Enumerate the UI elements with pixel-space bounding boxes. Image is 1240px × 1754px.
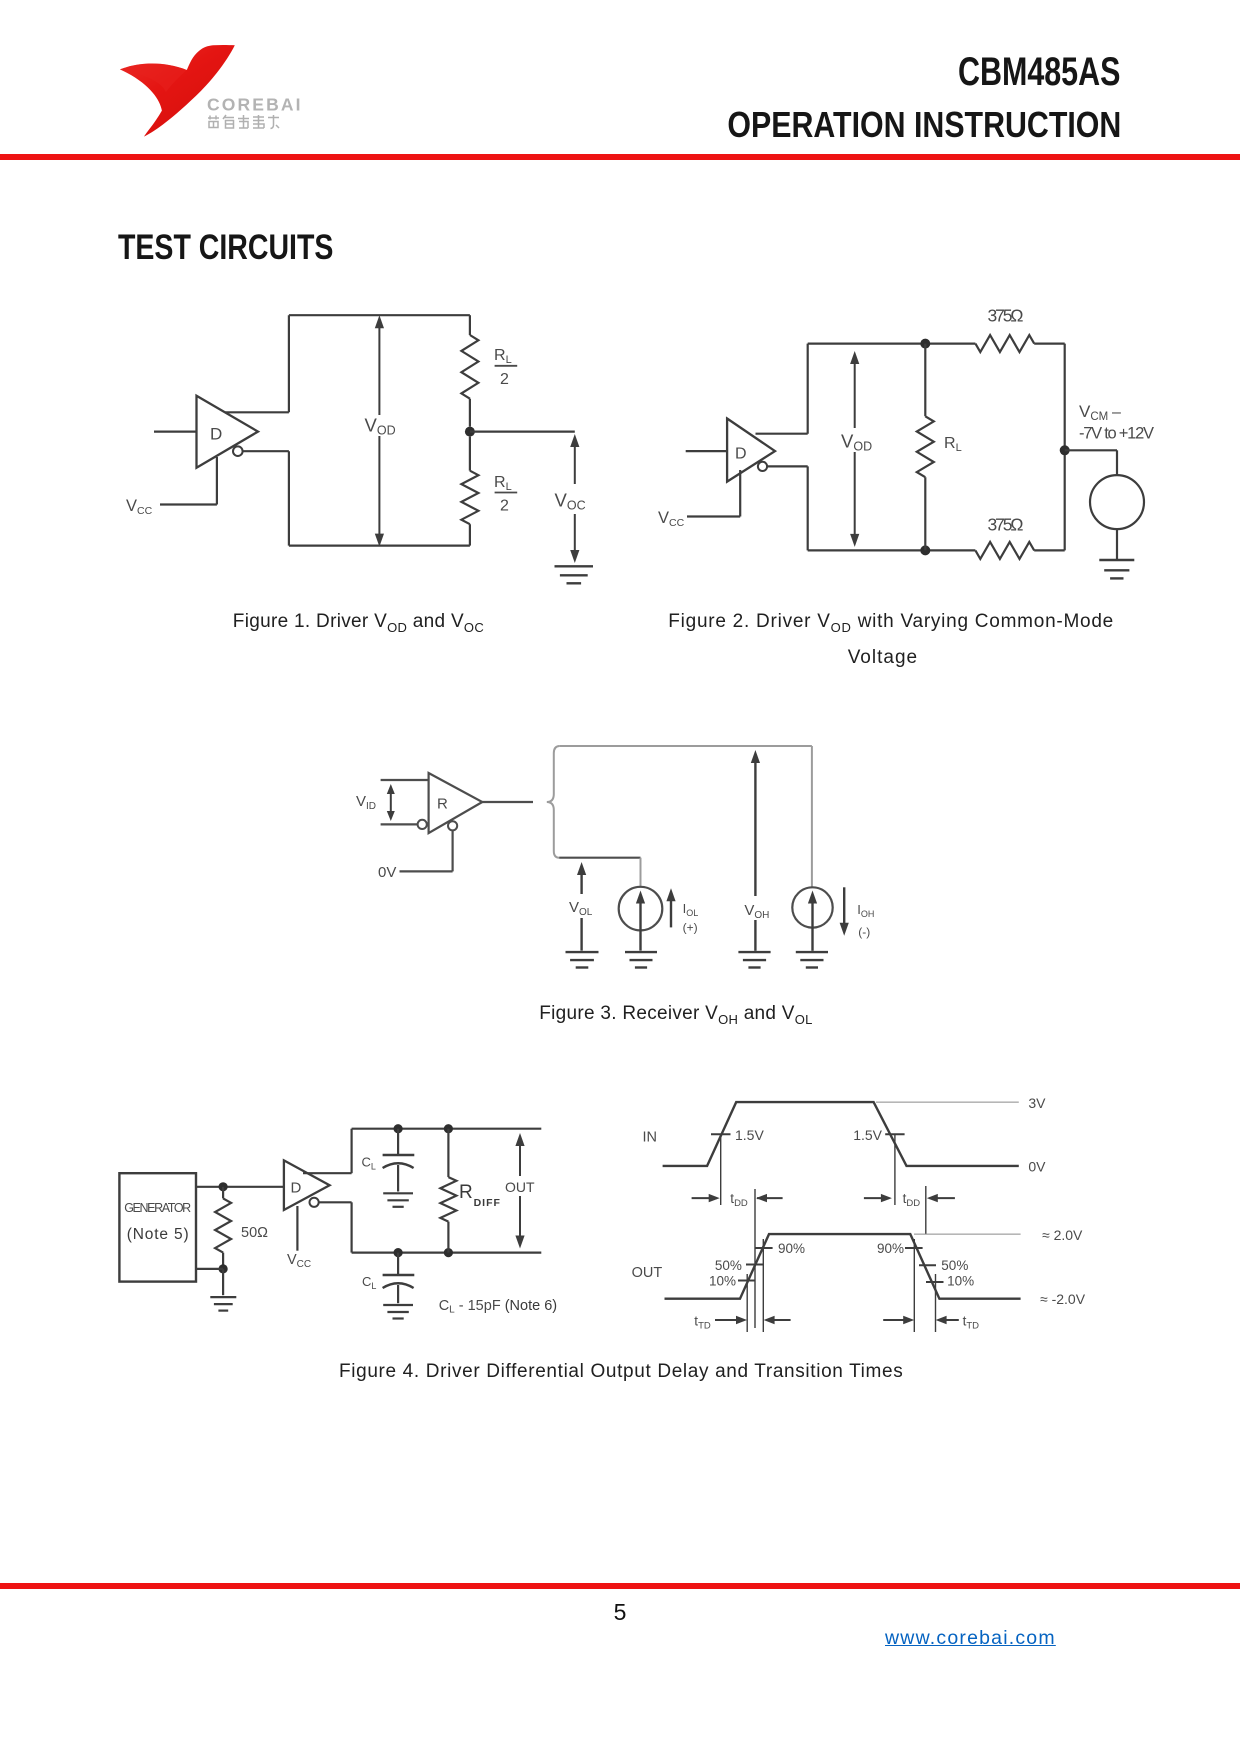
receiver enable bubble (Figure 3) [448,821,457,830]
title block [958,50,1120,95]
generator box (Figure 4) [119,1173,196,1281]
ground below upper CL (Figure 4) [383,1192,413,1194]
svg-text:D: D [735,446,747,463]
svg-text:RL: RL [494,474,512,493]
VOL measurement arrow (Figure 3) [577,862,586,875]
wire: output B to bottom rail (Figure 4) [319,1201,352,1203]
reference line OUT rising 10% [746,1274,748,1332]
svg-text:VCC: VCC [287,1252,311,1270]
svg-text:-7V to +12V: -7V to +12V [1079,425,1154,443]
svg-text:3V: 3V [1028,1095,1046,1111]
svg-text:10%: 10% [709,1274,736,1289]
COREBAI logo [110,35,320,140]
node junction between resistors (Figure 1) [465,427,475,437]
wire: bottom rail (Figure 1) [289,544,470,546]
ground below lower CL (Figure 4) [383,1304,413,1306]
reference line OUT rising 90% [762,1239,764,1332]
VOD measurement arrow (Figure 1) [378,320,380,541]
svg-text:IN: IN [643,1130,658,1146]
10% tick rising [738,1280,756,1282]
reference line OUT falling 50% [925,1186,927,1234]
wire: bottom rail (Figure 4) [352,1251,542,1253]
svg-text:tDD: tDD [730,1191,748,1209]
wire: bottom rail (Figure 2) [808,549,976,551]
VID measurement arrow (Figure 3) [390,788,392,817]
page number [0,1599,1240,1626]
svg-text:1.5V: 1.5V [735,1127,764,1143]
resistor RL (Figure 2) [924,344,926,417]
tTD arrows right [883,1319,905,1321]
IOL direction arrow (Figure 3) [666,888,675,901]
OUT waveform trace [665,1234,1021,1299]
captions [233,611,484,635]
90% tick falling [905,1247,923,1249]
svg-text:GENERATOR: GENERATOR [124,1201,191,1215]
wire: top rail to IOH branch (Figure 3) [559,745,812,747]
svg-text:R: R [459,1182,473,1203]
ground below VOH (Figure 3) [738,951,770,953]
VOH measurement arrow (Figure 3) [751,750,760,763]
svg-text:VOC: VOC [555,490,586,513]
IOH direction arrow (Figure 3) [843,887,845,924]
node: top rail at CL (Figure 4) [394,1124,403,1133]
svg-text:IOL: IOL [683,901,699,918]
svg-text:375Ω: 375Ω [988,515,1024,535]
svg-text:(Note 5): (Note 5) [127,1226,189,1243]
ground below VCM source (Figure 2) [1099,559,1134,561]
node: common-mode tap (Figure 2) [1060,445,1070,455]
capacitor CL lower (Figure 4) [397,1253,399,1275]
svg-text:DIFF: DIFF [474,1197,501,1209]
svg-text:VOH: VOH [744,902,769,921]
wire: top rail (Figure 2) [808,343,976,345]
resistor 375-ohm lower (Figure 2) [975,542,1034,559]
90% tick rising [755,1247,773,1249]
wire: generator to driver input (Figure 4) [196,1186,284,1188]
svg-text:90%: 90% [877,1241,904,1256]
svg-text:D: D [291,1180,302,1197]
50% tick rising [746,1264,763,1266]
svg-text:CL - 15pF (Note 6): CL - 15pF (Note 6) [439,1298,557,1316]
driver D (Figure 2) [727,419,775,482]
website link [885,1627,1056,1650]
VCC wire to driver enable (Figure 2) [687,515,740,517]
driver D input wire (Figure 2) [686,450,727,452]
resistor 375-ohm upper (Figure 2) [975,335,1034,352]
wire: generator lower terminal (Figure 4) [196,1268,223,1270]
1.5V crossing tick on falling edge [885,1133,904,1135]
output split brace (Figure 3) [547,746,559,858]
IN waveform trace [663,1102,1019,1166]
wire: right vertical to IOH source (Figure 3) [811,746,813,887]
svg-text:VID: VID [356,793,376,812]
svg-text:50%: 50% [941,1258,968,1273]
VCC wire (Figure 4) [296,1206,298,1251]
VCC wire to driver enable (Figure 1) [160,503,217,505]
top red rule [0,154,1240,160]
10% tick falling [926,1281,944,1283]
svg-text:(+): (+) [683,921,698,935]
svg-text:tTD: tTD [694,1314,711,1332]
tDD arrows right [864,1197,889,1199]
svg-text:VCC: VCC [126,497,153,517]
svg-text:(-): (-) [858,925,870,939]
svg-text:OUT: OUT [632,1265,663,1281]
driver D input wire (Figure 1) [154,431,197,433]
svg-text:50%: 50% [715,1258,742,1273]
wire: output A to top rail (Figure 1) [225,411,289,413]
tTD arrows left [715,1319,736,1321]
Figure 1 schematic: driver VOD and VOC test circuit [126,315,593,583]
wire: node to VCM source (Figure 2) [1065,449,1117,451]
Figure 2 schematic: driver VOD with varying common-mode voltage [658,306,1154,579]
tDD arrows left [692,1197,717,1199]
svg-text:tTD: tTD [963,1314,980,1332]
svg-text:–: – [1112,404,1121,421]
reference line from IN rising 1.5V crossing [720,1134,722,1205]
driver D inverting-output bubble (Figure 4) [310,1198,319,1207]
svg-text:CL: CL [362,1274,376,1291]
node: generator output junction (Figure 4) [219,1182,228,1191]
svg-text:375Ω: 375Ω [988,306,1024,326]
wire: IOH source to ground (Figure 3) [811,928,813,951]
VOD measurement arrow (Figure 2) [854,355,856,541]
reference line OUT falling 10% [935,1274,937,1332]
resistor 50-ohm (Figure 4) [222,1187,224,1199]
ground below IOL (Figure 3) [625,951,657,953]
receiver output wire (Figure 3) [482,801,533,803]
wire: center node to VOC arrow (Figure 1) [470,431,575,433]
Figure 4 timing diagram: input and output waveforms [632,1095,1086,1332]
svg-text:50Ω: 50Ω [241,1225,268,1241]
wire: output B to bottom rail (Figure 2) [767,465,807,467]
capacitor CL upper (Figure 4) [397,1129,399,1155]
receiver noninverting input wire (Figure 3) [381,779,429,781]
wire: output A to top rail (Figure 4) [303,1172,352,1174]
reference line OUT rising 50% [754,1189,756,1328]
receiver inverting input wire with bubble (Figure 3) [381,823,418,825]
svg-text:RL: RL [494,347,512,366]
wire: VCM source to ground (Figure 2) [1116,529,1118,560]
ground below VOC (Figure 1) [555,565,594,567]
svg-text:0V: 0V [1028,1159,1046,1175]
reference line OUT falling 90% [913,1239,915,1332]
svg-text:RL: RL [944,435,962,454]
ground below IOH (Figure 3) [796,951,828,953]
svg-text:tDD: tDD [903,1191,921,1209]
wire: top rail (Figure 1) [289,314,470,316]
current source IOH (Figure 3) [792,887,832,927]
driver D (Figure 4) [284,1160,330,1210]
svg-text:VCM: VCM [1079,402,1108,423]
svg-text:2: 2 [500,371,509,388]
svg-text:0V: 0V [378,864,396,881]
1.5V crossing tick on rising edge [711,1133,731,1135]
receiver R (Figure 3) [429,773,483,833]
node: bottom rail at RDIFF (Figure 4) [444,1248,453,1257]
reference line from IN falling 1.5V crossing [894,1134,896,1205]
50% tick falling [919,1264,936,1266]
svg-text:2: 2 [500,498,509,515]
svg-text:R: R [437,796,448,813]
VCM voltage source (Figure 2) [1090,475,1144,529]
svg-text:10%: 10% [947,1274,974,1289]
node: generator lower junction (Figure 4) [219,1264,228,1273]
bottom red rule [0,1583,1240,1589]
svg-text:D: D [210,425,222,444]
svg-text:≈ -2.0V: ≈ -2.0V [1040,1291,1086,1307]
wire: output B to bottom rail (Figure 1) [243,450,289,452]
svg-text:VCC: VCC [658,509,685,529]
svg-text:OUT: OUT [505,1179,535,1195]
ground below 50-ohm (Figure 4) [210,1296,236,1298]
OUT measurement arrow (Figure 4) [515,1133,524,1146]
svg-text:90%: 90% [778,1241,805,1256]
node: bottom rail junction (Figure 2) [920,545,930,555]
driver D inverting-output bubble (Figure 2) [758,462,767,471]
wire: IOL source to ground (Figure 3) [639,928,641,951]
wire: top rail (Figure 4) [352,1128,542,1130]
svg-text:≈ 2.0V: ≈ 2.0V [1042,1227,1083,1243]
3V reference line [876,1101,1019,1103]
resistor RL/2 lower (Figure 1) [469,437,471,471]
wire: bottom branch to IOL source (Figure 3) [559,857,640,859]
svg-text:VOL: VOL [569,899,593,918]
node: top rail at RDIFF (Figure 4) [444,1124,453,1133]
resistor RDIFF (Figure 4) [447,1129,449,1177]
node: top rail junction (Figure 2) [920,339,930,349]
Figure 4 schematic: driver differential output delay test circuit [119,1124,557,1318]
ground below VOL (Figure 3) [566,951,599,953]
svg-text:CL: CL [362,1155,376,1172]
driver D (Figure 1) [197,396,259,468]
VOC measurement arrow (Figure 1) [570,434,579,447]
Figure 3 schematic: receiver VOH and VOL test circuit [356,746,874,968]
resistor RL/2 upper (Figure 1) [469,315,471,335]
section heading [118,227,333,268]
driver D inverting-output bubble (Figure 1) [233,446,243,456]
wire: output A to top rail (Figure 2) [756,433,808,435]
svg-text:IOH: IOH [857,902,874,919]
0V wire to enable (Figure 3) [452,830,454,871]
node: bottom rail at CL (Figure 4) [394,1248,403,1257]
wire: junction to ground (Figure 4) [222,1269,224,1295]
svg-text:1.5V: 1.5V [853,1127,882,1143]
wire: right vertical (Figure 2) [1064,344,1066,551]
current source IOL (Figure 3) [619,887,663,931]
2.0V reference line [914,1233,1021,1235]
